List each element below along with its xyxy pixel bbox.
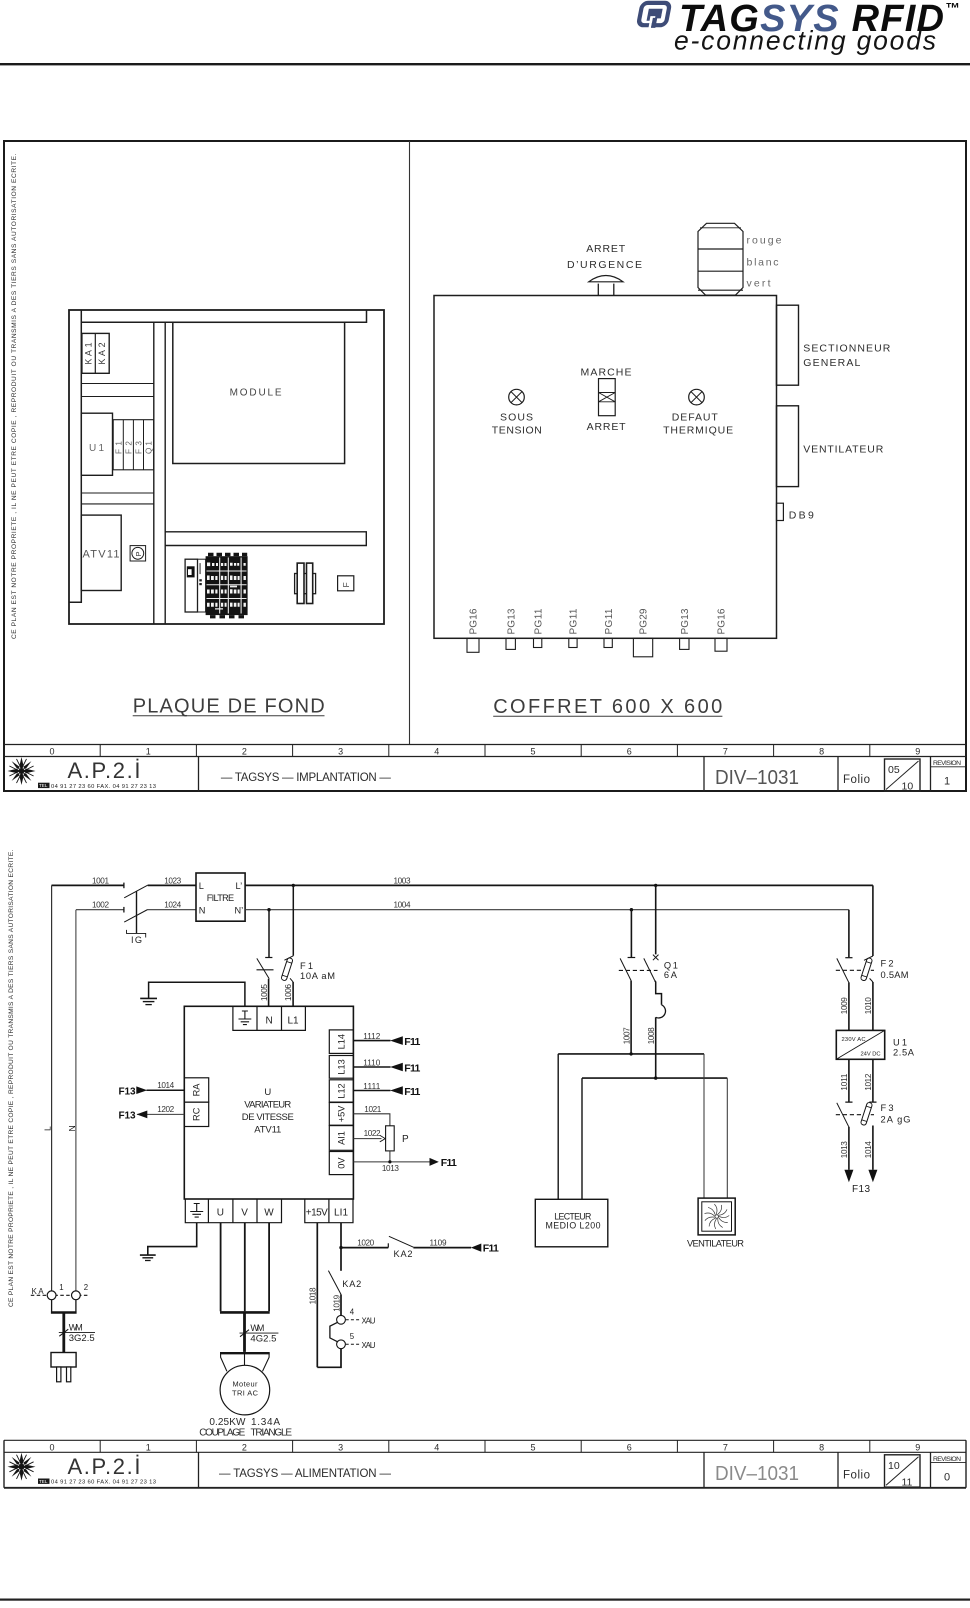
svg-text:REVISION: REVISION [933,1456,961,1463]
svg-text:1012: 1012 [864,1073,873,1090]
svg-text:™: ™ [946,1,961,17]
svg-text:KA2: KA2 [342,1279,361,1289]
svg-text:PG11: PG11 [604,608,615,634]
svg-text:F2: F2 [881,959,894,969]
wire 1007 [630,981,632,1054]
motor funnel [220,1352,270,1354]
svg-text:D’URGENCE: D’URGENCE [567,259,642,271]
marche/arret selector [599,379,616,416]
svg-text:1003: 1003 [394,876,411,885]
plug cable bar [51,1311,77,1314]
svg-text:10: 10 [902,781,914,793]
svg-text:F11: F11 [404,1086,420,1098]
lower horizontal wireway [81,493,154,504]
wire 1013 from 0V [353,1161,430,1163]
svg-text:3: 3 [338,747,343,757]
svg-text:DEFAUT: DEFAUT [672,411,719,423]
svg-text:KA: KA [32,1287,45,1296]
bottom rule [0,1599,970,1601]
svg-text:1022: 1022 [364,1129,381,1138]
svg-text:vert: vert [747,277,772,289]
svg-text:2A gG: 2A gG [881,1114,911,1124]
gland labels [469,608,728,634]
left wireway [69,310,81,602]
emergency stop button [589,276,623,296]
terminal rail assembly: controller [185,559,197,612]
A.P.2.I star logo sheet2 [8,1453,36,1481]
svg-text:F11: F11 [404,1036,420,1048]
svg-text:RA: RA [192,1083,202,1097]
ruler row lines sheet2 [4,1439,966,1441]
svg-text:6: 6 [627,1442,632,1452]
svg-text:rouge: rouge [747,235,783,247]
wire 1018 [316,1223,318,1368]
wire 1111 from L12 [353,1090,390,1092]
wiper arrowhead [380,1135,385,1142]
svg-text:— TAGSYS — IMPLANTATION —: — TAGSYS — IMPLANTATION — [221,772,392,784]
svg-text:A.P.2.İ: A.P.2.İ [68,758,141,783]
svg-text:N: N [67,1125,77,1131]
svg-text:N: N [266,1016,273,1027]
svg-text:1: 1 [59,1283,63,1292]
svg-text:0.25KW: 0.25KW [209,1417,246,1428]
svg-text:0.5AM: 0.5AM [881,970,909,980]
svg-text:KA1: KA1 [84,342,94,364]
fuse-switch F2 cartridge [860,957,872,981]
svg-text:WM: WM [69,1323,83,1333]
svg-text:5: 5 [530,1442,535,1452]
A.P.2.I star logo [8,757,36,785]
svg-text:0: 0 [944,1471,950,1483]
svg-text:PLAQUE DE FOND: PLAQUE DE FOND [133,695,325,717]
arrow F11 line L12 [390,1086,403,1095]
label ARRET D'URGENCE [567,243,642,271]
wire 1014 down [872,1126,874,1170]
svg-text:ARRET: ARRET [587,421,627,433]
arrow F13 to RA [136,1086,147,1094]
svg-text:PG13: PG13 [680,608,691,634]
Q1 thermal element and wire 1008 [655,981,662,1005]
svg-text:2.5A: 2.5A [893,1047,915,1057]
ruler numbers [49,747,920,757]
svg-text:1002: 1002 [92,901,109,910]
motor rating 0.25KW 1.34A [209,1417,280,1428]
arrow F11 end 1109 [471,1244,481,1252]
title COFFRET 600 X 600 [493,696,722,718]
fan VENTILATEUR [687,1198,744,1249]
svg-text:7: 7 [723,747,728,757]
wire 1110 from L13 [353,1066,390,1068]
contact KA2 NO vertical [328,1271,341,1295]
fan feed wires [704,1054,727,1198]
power supply U1 [81,413,112,475]
svg-text:1013: 1013 [840,1141,849,1158]
svg-text:PG11: PG11 [569,608,580,634]
pushbutton contact 4 XAU [337,1315,346,1324]
tel/fax strip [38,783,156,790]
svg-text:PG16: PG16 [717,608,728,634]
svg-text:MARCHE: MARCHE [581,366,632,378]
sheet2 block side edges [4,1440,966,1488]
drive PE to ground [148,1223,197,1255]
svg-text:3: 3 [338,1442,343,1452]
svg-text:10: 10 [888,1460,900,1472]
terminal rail assembly: terminal blocks [206,553,248,619]
drive PE terminal glyph [239,1011,252,1025]
svg-text:6A: 6A [664,970,678,980]
wire 1019 [340,1294,342,1315]
svg-text:Folio: Folio [843,774,870,786]
svg-text:1010: 1010 [864,997,873,1014]
wire 1014 into RA [147,1089,185,1091]
svg-text:P: P [134,551,143,556]
wire 1013 down [848,1127,850,1170]
ruler cell dividers sheet2 [100,1440,870,1452]
dual connector [295,563,316,603]
svg-text:0: 0 [49,747,54,757]
wire 1022 from AI1 [353,1138,381,1140]
svg-text:VARIATEUR: VARIATEUR [244,1100,291,1111]
svg-text:FILTRE: FILTRE [207,893,235,903]
svg-text:DIV–1031: DIV–1031 [715,1462,799,1485]
svg-text:N: N [199,905,206,915]
motor TRI AC [220,1365,270,1415]
filter box F [338,576,354,591]
svg-text:04 91 27 23 60 FAX. 04 91 27: 04 91 27 23 60 FAX. 04 91 27 23 13 [51,1480,156,1486]
ruler cell dividers [4,745,966,757]
svg-text:1004: 1004 [394,901,411,910]
ground symbol lower [140,1254,156,1256]
svg-text:9: 9 [915,747,920,757]
wire L drop to KA [51,885,53,1291]
svg-text:IG: IG [131,935,142,945]
Q1 link dashes [619,969,658,971]
svg-text:U1: U1 [893,1037,907,1047]
svg-text:DE VITESSE: DE VITESSE [242,1112,294,1123]
svg-text:F11: F11 [404,1062,420,1074]
svg-text:2: 2 [84,1283,88,1292]
plug feeder wires [52,1300,76,1312]
ruler row lines [4,744,966,746]
svg-text:U: U [264,1087,271,1098]
svg-text:Folio: Folio [843,1470,870,1482]
svg-text:L’: L’ [236,881,243,891]
disconnector IG pole 1 [123,883,125,889]
svg-text:+15V: +15V [306,1207,328,1218]
header rule [0,63,970,65]
svg-text:F3: F3 [135,441,144,454]
svg-text:5: 5 [530,747,535,757]
svg-text:SOUS: SOUS [500,411,533,423]
svg-text:4: 4 [434,747,439,757]
svg-text:F: F [341,582,351,587]
svg-text:9: 9 [915,1442,920,1452]
title row dividers [199,757,931,792]
arrow F13 from RC [137,1111,148,1119]
COFFRET-DRAWING [434,223,891,718]
svg-text:GENERAL: GENERAL [803,357,860,369]
arrow F11 from 0V [430,1158,439,1166]
contact KA2 NO in 1020 line [387,1243,389,1247]
wire 1004 [245,909,849,911]
svg-text:U: U [217,1207,224,1218]
wire 1024 [148,909,196,911]
svg-text:1021: 1021 [364,1105,381,1114]
wire 1023 [148,884,196,886]
svg-text:04 91 27 23 60 FAX. 04 91 27: 04 91 27 23 60 FAX. 04 91 27 23 13 [51,784,156,790]
PE wire to drive [149,982,245,1006]
svg-text:3G2.5: 3G2.5 [69,1333,95,1344]
arrow F11 line L13 [390,1063,403,1072]
mains filter FILTRE [196,873,245,921]
svg-text:1009: 1009 [840,997,849,1014]
F2 feeder drops [849,885,873,957]
svg-text:L: L [43,1126,53,1131]
svg-text:F1: F1 [300,961,313,971]
svg-text:P: P [402,1134,409,1145]
drive nameplate text [242,1087,294,1136]
svg-text:W: W [264,1207,274,1218]
svg-text:1014: 1014 [157,1081,174,1090]
ground symbol upper [140,997,157,999]
PLAQUE-DRAWING [69,310,384,717]
motor coupling label [199,1427,292,1438]
wire 1003 [245,884,873,886]
svg-text:SECTIONNEUR: SECTIONNEUR [803,343,890,355]
svg-text:CE PLAN EST NOTRE PROPRIETE ,: CE PLAN EST NOTRE PROPRIETE , IL NE PEUT… [8,849,15,1307]
wire 1001 [52,884,124,886]
svg-text:7: 7 [723,1442,728,1452]
svg-text:1008: 1008 [647,1027,656,1044]
svg-text:1006: 1006 [284,984,293,1001]
svg-text:6: 6 [627,747,632,757]
arrow down F13 left [844,1170,853,1182]
fan housing box [777,406,884,487]
drive top terminals PE N L1 [233,1006,306,1030]
svg-text:COUPLAGE: COUPLAGE [199,1427,245,1438]
Q1 feeder drops [631,885,655,957]
main disconnect handle box [777,305,891,385]
svg-text:1.34A: 1.34A [251,1417,280,1428]
svg-text:WM: WM [250,1323,264,1333]
junction on 1004 at F1 [267,908,270,911]
svg-text:V: V [241,1207,248,1218]
svg-text:05: 05 [888,764,900,776]
right horizontal wireway [165,532,366,546]
svg-text:MODULE: MODULE [230,388,282,399]
svg-text:F3: F3 [881,1103,894,1113]
title PLAQUE DE FOND [133,695,325,717]
stack light labels rouge blanc vert [747,235,783,290]
svg-text:1007: 1007 [623,1027,632,1044]
svg-text:1024: 1024 [164,901,181,910]
tel/fax strip sheet2 [38,1479,156,1486]
svg-text:— TAGSYS — ALIMENTATION —: — TAGSYS — ALIMENTATION — [219,1468,392,1480]
svg-text:XAU: XAU [362,1316,376,1325]
drive right terminals L14 L13 L12 +5V AI1 0V [329,1030,353,1175]
svg-text:1: 1 [146,747,151,757]
SHEET 2 schematic [8,849,915,1438]
disconnector IG pole 2 [123,907,125,913]
svg-text:L: L [199,881,204,891]
wire 1112 from L14 [353,1040,390,1042]
drive bottom terminals [185,1199,353,1223]
wire 1012 [872,1059,874,1102]
motor wires U V W [221,1223,270,1312]
junction on 1004 at Q1 [630,908,633,911]
wire 1002 [76,909,124,911]
pushbutton contact 5 XAU [337,1340,346,1349]
svg-text:L1: L1 [288,1016,300,1027]
SHEET2-TITLEBLOCK [4,1440,966,1488]
pilot lamp defaut thermique [663,389,733,436]
ruler numbers sheet2 [49,1442,920,1452]
reader LECTEUR MEDIO L200 [535,1199,608,1247]
svg-text:PG13: PG13 [506,608,517,634]
wire 1011 [848,1059,850,1102]
F3 link dashes [836,1114,874,1116]
svg-text:2: 2 [242,747,247,757]
svg-text:ARRET: ARRET [586,243,626,255]
svg-text:F11: F11 [483,1243,499,1255]
KA plug interlock contacts [31,1294,88,1296]
fuse-switch F3 blade [845,1101,876,1103]
svg-text:1005: 1005 [260,984,269,1001]
svg-text:1109: 1109 [430,1238,447,1247]
svg-text:U1: U1 [89,443,104,454]
bus upper to loads [558,1053,704,1055]
IG mechanical link [136,891,138,933]
drive left terminals RA RC [184,1078,208,1127]
svg-text:REVISION: REVISION [933,760,961,767]
fuse-switch F3 cartridge [860,1102,872,1126]
svg-text:L13: L13 [337,1059,347,1074]
svg-text:PG29: PG29 [639,608,650,634]
fuse-switch F2 blade [845,957,852,959]
svg-text:Q1: Q1 [145,441,154,454]
wire 1020 [341,1247,388,1249]
svg-text:TEL: TEL [39,1479,48,1484]
plug symbol [51,1353,76,1368]
junction LI1/1020 [339,1246,342,1249]
svg-text:COFFRET 600 X 600: COFFRET 600 X 600 [493,696,722,718]
bus lower to loads [582,1077,727,1079]
svg-text:24V DC: 24V DC [861,1051,881,1057]
plug cable [62,1313,65,1353]
svg-text:1020: 1020 [357,1238,374,1247]
sheet1 centre divider [409,141,411,745]
svg-text:11: 11 [902,1476,913,1488]
pot lower stem [389,1151,391,1162]
svg-text:F13: F13 [119,1111,136,1122]
cable marker WM 3G2.5 [59,1329,68,1336]
reader feed wires [558,1054,582,1199]
arrow down F13 right [868,1170,877,1182]
top wireway [81,310,366,322]
SHEET1-TITLEBLOCK [4,745,966,793]
svg-text:1: 1 [944,776,950,788]
wire 1109 [413,1247,471,1249]
folio box 10/11 [885,1455,921,1487]
svg-text:1013: 1013 [382,1164,399,1173]
svg-text:CE PLAN EST NOTRE PROPRIETE ,: CE PLAN EST NOTRE PROPRIETE , IL NE PEUT… [11,153,18,639]
svg-text:1112: 1112 [363,1032,380,1041]
potentiometer symbol circled P [130,546,146,561]
module box [173,322,345,463]
svg-text:4G2.5: 4G2.5 [250,1334,276,1345]
svg-text:THERMIQUE: THERMIQUE [663,425,733,437]
KA contact 1 [47,1291,56,1300]
mounting plate outline [69,310,384,624]
svg-text:1011: 1011 [840,1073,849,1090]
svg-text:N’: N’ [235,905,244,915]
svg-text:F2: F2 [124,441,133,454]
upper horizontal wireway [81,384,154,397]
svg-text:1014: 1014 [864,1141,873,1158]
fuse-switch F1 pole N blade [265,957,272,959]
svg-text:4: 4 [350,1308,355,1317]
arrow F11 line L14 [390,1036,403,1045]
svg-text:ATV11: ATV11 [83,549,120,561]
TAGSYS logo icon [637,3,670,29]
svg-text:1019: 1019 [332,1294,341,1311]
svg-text:2: 2 [242,1442,247,1452]
SHEET 1 frame [4,141,966,791]
junction on 1003 at F1 [292,884,295,887]
pilot lamp sous tension [492,389,542,436]
potentiometer P [386,1126,395,1151]
svg-text:1202: 1202 [157,1105,174,1114]
svg-text:DIV–1031: DIV–1031 [715,766,799,789]
F2 link dashes [836,969,874,971]
junction pot/0V [388,1160,391,1163]
wire 1006 [292,982,294,1006]
svg-text:L14: L14 [337,1034,347,1049]
svg-text:0V: 0V [337,1157,347,1169]
svg-text:F13: F13 [119,1086,136,1097]
terminal rail assembly: coupler [198,559,206,612]
svg-text:TRIANGLE: TRIANGLE [251,1427,293,1438]
svg-text:8: 8 [819,1442,824,1452]
svg-text:Q1: Q1 [664,960,678,970]
bottom PE glyph [190,1204,203,1218]
svg-text:PG11: PG11 [533,608,544,634]
fuse holders F1 F2 F3 Q1 [113,420,154,470]
svg-text:1: 1 [146,1442,151,1452]
svg-text:230V AC: 230V AC [842,1037,866,1043]
svg-text:1110: 1110 [363,1058,380,1067]
svg-text:VENTILATEUR: VENTILATEUR [687,1239,744,1249]
svg-text:KA2: KA2 [97,342,107,364]
motor cable [243,1312,246,1352]
wire 1005 [268,979,270,1007]
svg-text:10A aM: 10A aM [300,971,335,981]
svg-text:F13: F13 [852,1184,870,1195]
F1 feeder drops [269,885,293,957]
svg-text:1111: 1111 [363,1082,380,1091]
svg-text:RC: RC [192,1107,202,1121]
folio box 05/10 [885,759,921,791]
svg-text:KA2: KA2 [394,1249,413,1259]
svg-text:F1: F1 [114,441,123,454]
junction 1008/bus [654,1076,657,1079]
fuse-switch F1 fuse cartridge [281,957,293,981]
power supply U1 230VAC/24VDC [836,1030,884,1059]
wire 1021 from +5V [353,1114,390,1126]
plug prong 2 [67,1367,71,1382]
plug prong 1 [57,1367,61,1382]
svg-text:1023: 1023 [164,876,181,885]
